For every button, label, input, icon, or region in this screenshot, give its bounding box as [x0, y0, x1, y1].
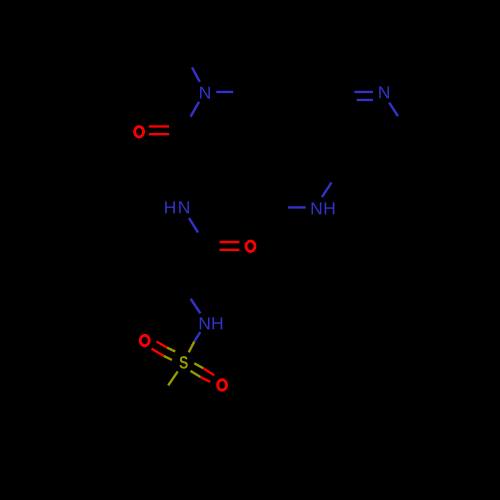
- wire S=O3 double bond line1 (O half): [157, 342, 168, 348]
- wire S=O4 double bond line1 (S half): [194, 363, 203, 368]
- wire pyridine C=N2 main line (N half): [354, 91, 373, 93]
- wire S=O3 double bond line2 (S half): [164, 356, 172, 360]
- node HN amide label: [165, 201, 189, 213]
- wire ring NH up-right bond (N half): [322, 183, 332, 198]
- wire S-CH3 bond (S half): [168, 372, 178, 386]
- node S sulfur label: [179, 356, 187, 368]
- wire N1-carbonyl C bond (N half): [191, 102, 199, 117]
- wire N1-CH3 bond (N half): [192, 67, 200, 81]
- node N2 pyridine nitrogen label: [379, 86, 389, 98]
- wire sulfonamide NH-CH bond (N half): [191, 299, 201, 314]
- wire C=O2 double bond top line (O half): [220, 241, 240, 243]
- node NH ring label: [312, 202, 335, 214]
- wire N1-ring C bond (N half): [216, 91, 233, 93]
- wire ring NH left bond (N half): [288, 206, 306, 208]
- wire C=O1 double bond top line (O half): [149, 125, 169, 127]
- wire S=O4 double bond line1 (O half): [203, 368, 214, 375]
- wire pyridine C=N2 inner line (N half): [357, 99, 373, 101]
- node N1 amide nitrogen label: [200, 87, 210, 99]
- node O4 sulfonyl oxygen label: [218, 380, 227, 390]
- wire NH-S bond (S half): [189, 342, 195, 353]
- wire C=O2 double bond bottom line (O half): [220, 249, 240, 251]
- wire S=O4 double bond line2 (O half): [200, 377, 210, 382]
- wire S=O4 double bond line2 (S half): [191, 371, 201, 377]
- node O1 carbonyl oxygen label: [135, 127, 144, 137]
- wire HN-carbonyl C bond (N half): [189, 218, 198, 233]
- wire NH-S bond (N half): [194, 332, 200, 341]
- node O3 sulfonyl oxygen label: [140, 335, 149, 345]
- node O2 carbonyl oxygen label: [246, 241, 255, 251]
- wire C=O1 double bond bottom line (O half): [149, 133, 169, 135]
- wire S=O3 double bond line2 (O half): [152, 349, 164, 356]
- wire S=O3 double bond line1 (S half): [167, 348, 175, 352]
- node NH sulfonamide label: [200, 317, 223, 329]
- wire N2-ring C bond (N half): [389, 103, 398, 117]
